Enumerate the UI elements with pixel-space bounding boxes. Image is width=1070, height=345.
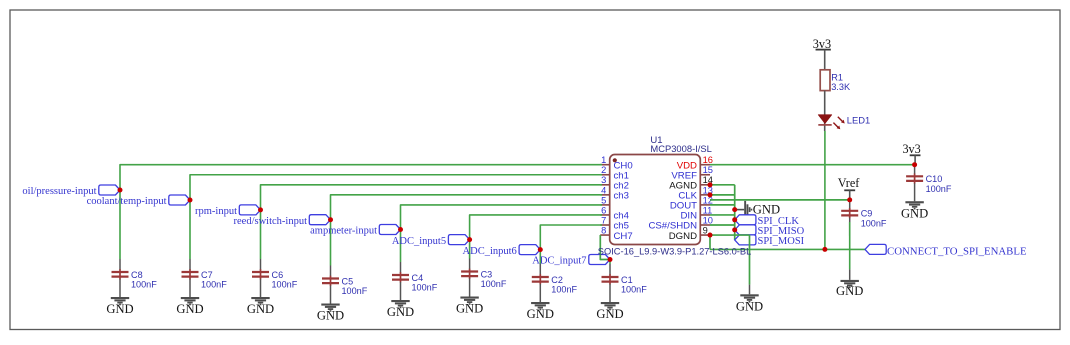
junction dot (node ADC_input5) xyxy=(467,237,472,242)
svg-text:3v3: 3v3 xyxy=(813,37,831,51)
net label SPI_MISO xyxy=(735,225,756,235)
U1 pin 14 stub xyxy=(700,184,710,186)
ground below C1 xyxy=(601,302,619,304)
svg-text:C2: C2 xyxy=(551,275,563,285)
net label rpm-input xyxy=(239,205,260,215)
U1 pin 6 stub xyxy=(600,214,610,216)
svg-text:GND: GND xyxy=(317,309,344,323)
junction dot (3v3 VDD node) xyxy=(912,162,917,167)
wire Vref branch xyxy=(710,199,850,201)
svg-text:GND: GND xyxy=(753,203,780,217)
ground below C8 xyxy=(111,297,129,299)
power flag 3v3 top xyxy=(816,49,831,51)
wire VDD pin16 to 3v3/C10 node xyxy=(710,164,915,166)
net label SPI_MOSI xyxy=(735,235,756,245)
junction dot (pin9 DGND) xyxy=(708,233,713,238)
wire pin9 gnd drop xyxy=(749,235,751,285)
junction dot (SPI_CLK tag) xyxy=(732,217,737,222)
wire ampmeter-input to pin xyxy=(401,205,603,262)
svg-text:LED1: LED1 xyxy=(847,114,870,125)
junction dot (pin13 CLK) xyxy=(708,192,713,197)
wire pin9 down to CS-enable net xyxy=(709,235,711,249)
svg-text:C3: C3 xyxy=(481,269,493,279)
wire coolant/temp-input to pin xyxy=(190,175,602,259)
ground below C10 xyxy=(905,201,923,203)
capacitor C9 100nF xyxy=(849,198,851,209)
wire DIN pin11 right xyxy=(710,214,735,216)
capacitor C8 100nF xyxy=(119,259,121,270)
svg-text:GND: GND xyxy=(456,302,483,316)
svg-text:MCP3008-I/SL: MCP3008-I/SL xyxy=(650,143,712,154)
wire R1 to LED1 xyxy=(824,91,826,131)
svg-text:ampmeter-input: ampmeter-input xyxy=(310,226,377,237)
capacitor C3 100nF xyxy=(469,259,471,270)
svg-text:100nF: 100nF xyxy=(551,285,577,295)
U1 pin 4 stub xyxy=(600,194,610,196)
svg-text:GND: GND xyxy=(176,302,203,316)
svg-text:10: 10 xyxy=(703,215,713,225)
ground below C7 xyxy=(181,297,199,299)
capacitor C4 100nF xyxy=(400,262,402,273)
net label SPI_CLK xyxy=(735,215,756,225)
net label reed/switch-input xyxy=(309,215,330,225)
svg-text:reed/switch-input: reed/switch-input xyxy=(234,216,308,227)
wire rpm-input to pin xyxy=(261,185,603,259)
wire reed/switch-input to pin xyxy=(331,195,603,266)
svg-text:100nF: 100nF xyxy=(481,279,507,289)
net label ADC_input5 xyxy=(448,235,469,245)
wire LED1 to CS-enable net xyxy=(824,131,826,249)
svg-text:1: 1 xyxy=(601,155,606,165)
svg-text:C10: C10 xyxy=(926,174,943,184)
svg-text:3.3K: 3.3K xyxy=(831,82,851,92)
svg-text:oil/pressure-input: oil/pressure-input xyxy=(22,186,96,197)
svg-text:ADC_input6: ADC_input6 xyxy=(463,246,517,257)
svg-text:100nF: 100nF xyxy=(926,184,952,194)
junction dot (node oil/pressure-input) xyxy=(118,188,123,193)
svg-text:GND: GND xyxy=(836,284,863,298)
svg-text:15: 15 xyxy=(703,165,713,175)
wire CS pin10 right xyxy=(710,224,735,226)
svg-text:ADC_input7: ADC_input7 xyxy=(532,256,586,267)
svg-text:GND: GND xyxy=(106,302,133,316)
capacitor C2 100nF xyxy=(539,264,541,275)
gnd lead xyxy=(749,285,751,295)
net label CONNECT_TO_SPI_ENABLE xyxy=(865,244,886,254)
svg-text:rpm-input: rpm-input xyxy=(195,206,237,217)
capacitor C7 100nF xyxy=(189,259,191,270)
svg-text:Vref: Vref xyxy=(838,176,861,190)
ground flag at SPI node xyxy=(736,209,744,211)
junction dot (Vref node) xyxy=(847,197,852,202)
U1 pin 1 stub xyxy=(600,164,610,166)
wire ADC_input6 to pin xyxy=(540,225,602,264)
svg-text:R1: R1 xyxy=(831,72,843,82)
svg-text:C4: C4 xyxy=(412,273,424,283)
svg-text:100nF: 100nF xyxy=(272,280,298,290)
svg-text:C5: C5 xyxy=(342,276,354,286)
svg-text:100nF: 100nF xyxy=(412,283,438,293)
ground DGND xyxy=(740,294,758,296)
LED1 emission arrows xyxy=(833,117,844,130)
wire node to C1 xyxy=(609,260,611,265)
svg-text:GND: GND xyxy=(596,307,623,321)
svg-text:100nF: 100nF xyxy=(342,286,368,296)
ground below C9 xyxy=(841,280,859,282)
svg-text:8: 8 xyxy=(601,225,606,235)
U1 pin 5 stub xyxy=(600,204,610,206)
U1 pin 16 stub xyxy=(700,164,710,166)
U1 pin 2 stub xyxy=(600,174,610,176)
wire pin 8 to ADC_input7 node xyxy=(600,235,610,259)
svg-text:GND: GND xyxy=(247,302,274,316)
wire 3v3 to R1 xyxy=(824,50,826,70)
wire AGND pin14 right xyxy=(710,184,735,186)
svg-text:100nF: 100nF xyxy=(621,285,647,295)
wire CS-enable horizontal xyxy=(710,248,865,250)
svg-text:ch3: ch3 xyxy=(614,191,629,202)
svg-text:11: 11 xyxy=(703,205,713,215)
net label oil/pressure-input xyxy=(99,185,120,195)
U1 pin 11 stub xyxy=(700,214,710,216)
junction dot (pin14 AGND) xyxy=(708,182,713,187)
ground below C4 xyxy=(391,300,409,302)
svg-text:SOIC-16_L9.9-W3.9-P1.27-LS6.0-: SOIC-16_L9.9-W3.9-P1.27-LS6.0-BL xyxy=(598,247,751,257)
U1 pin 7 stub xyxy=(600,224,610,226)
wire CLK pin13 right xyxy=(710,194,735,196)
junction dot (node rpm-input) xyxy=(258,207,263,212)
Vref stem xyxy=(849,190,851,200)
junction dot (node reed/switch-input) xyxy=(328,217,333,222)
U1 pin 8 stub xyxy=(600,234,610,236)
svg-text:100nF: 100nF xyxy=(861,218,887,228)
svg-text:GND: GND xyxy=(527,307,554,321)
svg-text:7: 7 xyxy=(601,215,606,225)
power flag Vref xyxy=(844,189,855,191)
svg-text:C6: C6 xyxy=(272,270,284,280)
wire SPI bus vertical xyxy=(734,185,736,240)
ground below C5 xyxy=(321,304,339,306)
junction dot (GND flag stem) xyxy=(732,207,737,212)
svg-text:CH7: CH7 xyxy=(614,231,633,242)
U1 pin 15 stub xyxy=(700,174,710,176)
svg-text:GND: GND xyxy=(901,206,928,220)
net label ampmeter-input xyxy=(379,225,400,235)
wire oil/pressure-input to pin xyxy=(120,165,602,259)
svg-text:GND: GND xyxy=(387,305,414,319)
junction dot (node ampmeter-input) xyxy=(398,227,403,232)
svg-text:9: 9 xyxy=(703,225,708,235)
net label ADC_input7 xyxy=(589,255,610,265)
junction dot (node ADC_input6) xyxy=(538,247,543,252)
resistor R1 3.3K xyxy=(820,70,830,91)
ground below C2 xyxy=(531,302,549,304)
svg-text:C9: C9 xyxy=(861,209,873,219)
svg-text:100nF: 100nF xyxy=(131,280,157,290)
svg-text:3v3: 3v3 xyxy=(902,142,920,156)
IC U1 MCP3008-I/SL body xyxy=(610,155,701,245)
svg-text:5: 5 xyxy=(601,195,606,205)
U1 pin 9 stub xyxy=(700,234,710,236)
ground below C3 xyxy=(460,297,478,299)
ground below C6 xyxy=(251,297,269,299)
svg-text:CONNECT_TO_SPI_ENABLE: CONNECT_TO_SPI_ENABLE xyxy=(887,245,1027,257)
U1 pin-1 marker dot xyxy=(613,158,617,162)
svg-text:coolant/temp-input: coolant/temp-input xyxy=(87,196,167,207)
power flag 3v3 right xyxy=(910,154,921,156)
svg-text:16: 16 xyxy=(703,155,713,165)
wire ADC_input5 to pin xyxy=(470,215,602,259)
junction dot (node coolant/temp-input) xyxy=(188,198,193,203)
svg-text:SPI_MOSI: SPI_MOSI xyxy=(758,236,805,247)
wire C9 to gnd xyxy=(849,222,851,269)
capacitor C5 100nF xyxy=(330,266,332,277)
svg-text:C8: C8 xyxy=(131,270,143,280)
svg-text:3: 3 xyxy=(601,175,606,185)
svg-text:100nF: 100nF xyxy=(201,280,227,290)
capacitor C6 100nF xyxy=(260,259,262,270)
junction dot (SPI_MISO tag) xyxy=(732,227,737,232)
U1 pin 10 stub xyxy=(700,224,710,226)
wire DOUT pin12 right xyxy=(710,204,735,206)
junction dot (LED to CS-enable net) xyxy=(822,247,827,252)
svg-text:ADC_input5: ADC_input5 xyxy=(392,236,446,247)
svg-text:GND: GND xyxy=(736,299,763,313)
net label coolant/temp-input xyxy=(169,195,190,205)
svg-text:C7: C7 xyxy=(201,270,213,280)
svg-text:C1: C1 xyxy=(621,275,633,285)
svg-text:2: 2 xyxy=(601,165,606,175)
LED LED1 xyxy=(818,115,831,124)
svg-text:6: 6 xyxy=(601,205,606,215)
net label ADC_input6 xyxy=(519,245,540,255)
svg-text:DGND: DGND xyxy=(669,231,697,242)
capacitor C10 100nF xyxy=(914,163,916,174)
junction dot (node ADC_input7) xyxy=(608,257,613,262)
wire DGND pin9 right xyxy=(710,234,750,236)
U1 pin 3 stub xyxy=(600,184,610,186)
svg-text:4: 4 xyxy=(601,185,606,195)
U1 pin 12 stub xyxy=(700,204,710,206)
U1 pin 13 stub xyxy=(700,194,710,196)
capacitor C1 100nF xyxy=(609,264,611,275)
